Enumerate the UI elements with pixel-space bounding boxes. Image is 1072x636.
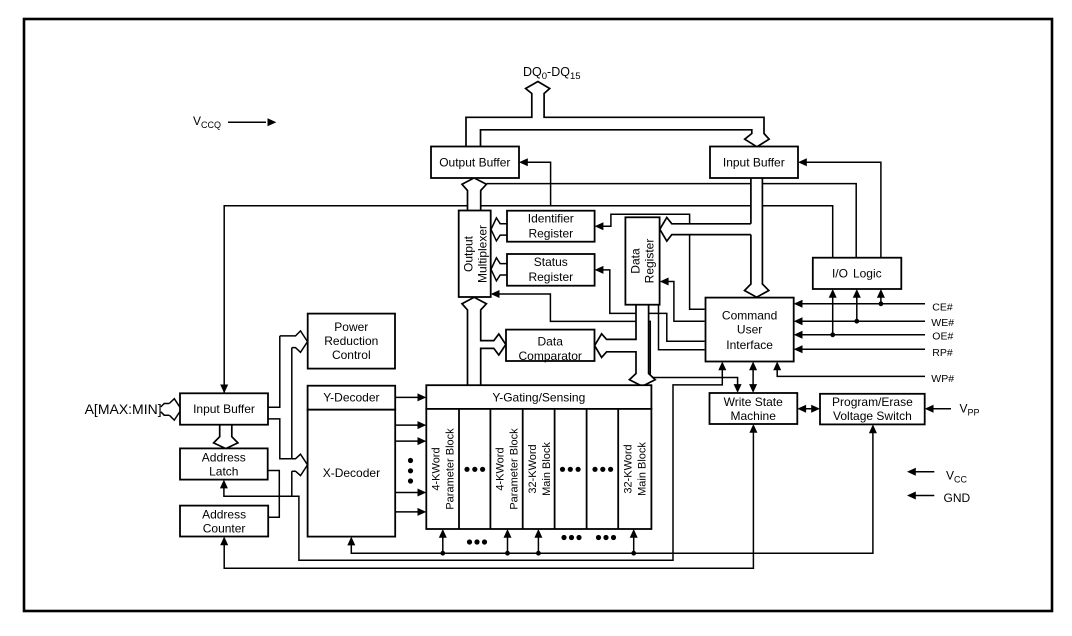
svg-text:RP#: RP#: [932, 347, 953, 359]
wire: CE#: [796, 303, 925, 305]
bus arrow: Identifier Register to Output Multiplexer: [491, 218, 508, 241]
arrowhead X-Decoder to blocks 1: [418, 421, 427, 429]
wire: CUI to Data Register: [662, 282, 705, 322]
wire: Data Register bottom corner to CUI: [659, 305, 705, 350]
svg-text:Y-Decoder: Y-Decoder: [323, 391, 379, 405]
bus: Input Buffer down to Command User Interface: [745, 177, 769, 297]
svg-text:Register: Register: [528, 227, 573, 241]
arrowhead into WSM bottom: [749, 424, 757, 433]
svg-text:Multiplexer: Multiplexer: [475, 225, 489, 283]
arrowhead VCC: [907, 468, 916, 476]
wire: block bottom feed 2: [507, 531, 509, 553]
wire: Y-Decoder to Y-Gating arrow line: [395, 396, 420, 398]
arrowhead PEVS left to WSM: [797, 405, 806, 413]
arrowhead into Input Buffer addr top: [220, 385, 228, 394]
svg-text:32-KWord: 32-KWord: [527, 444, 539, 493]
arrowhead into Identifier Register right: [595, 222, 604, 230]
box Write State Machine: [710, 393, 798, 424]
box Status Register: [507, 254, 595, 286]
wire: WP#: [777, 364, 925, 377]
arrowhead into Address Latch bottom: [220, 480, 228, 489]
bus arrow: Status Register to Output Multiplexer: [491, 258, 508, 281]
wire: CUI-WSM vertical double arrow: [752, 364, 754, 391]
wire: VCC input arrow line: [909, 471, 934, 473]
arrowhead into block7 bottom: [630, 529, 638, 538]
svg-text:4-KWord: 4-KWord: [495, 447, 507, 490]
wire: block bottom feed 4: [633, 531, 635, 553]
box Identifier Register: [507, 211, 595, 242]
svg-text:Data: Data: [538, 335, 564, 349]
wire: long bus line y=205.8 from x=224 to I/O Logic: [224, 206, 833, 393]
arrowhead into CUI bottom WP#: [773, 362, 781, 371]
wire: Address Counter / WSM net (line C): [224, 426, 753, 568]
wire: OE#: [796, 334, 925, 336]
wire: RP#: [796, 348, 925, 350]
box Power Reduction Control: [308, 314, 395, 369]
svg-text:WE#: WE#: [931, 317, 954, 329]
svg-text:Write State: Write State: [724, 395, 783, 409]
box memory blocks row: [426, 409, 651, 529]
junction dot block feed 3: [536, 551, 541, 556]
arrowhead into Output Buffer right: [519, 158, 528, 166]
arrowhead VCCQ: [268, 118, 277, 126]
arrowhead X-Decoder to blocks 2: [418, 437, 427, 445]
box X-Decoder: [308, 410, 396, 537]
arrowhead X-Decoder to blocks 3: [418, 489, 427, 497]
ellipsis below blocks 2: [561, 535, 581, 540]
arrowhead into X-Decoder bottom: [347, 537, 355, 546]
arrowhead into block3 bottom: [504, 529, 512, 538]
wire: X-Decoder / blocks / PEVS net (dots line): [351, 426, 873, 553]
box Data Comparator: [506, 330, 595, 361]
wire: VCCQ arrow line: [228, 121, 266, 123]
svg-text:I/OLogic: I/OLogic: [832, 267, 882, 281]
DQ bus: Output Buffer top, DQ0-DQ15 arrow, Input Buffer top arrow: [466, 82, 769, 148]
bus arrow: Output Multiplexer up to Output Buffer: [462, 178, 486, 212]
svg-text:Reduction: Reduction: [324, 334, 378, 348]
arrowhead into WSM top from mux line: [734, 384, 742, 393]
junction dot block feed 4: [631, 551, 636, 556]
bus arrow: into Power Reduction Control: [280, 331, 308, 352]
wire: Output Buffer right input: [521, 162, 551, 206]
svg-text:Data: Data: [628, 248, 642, 274]
svg-text:Address: Address: [202, 508, 246, 522]
junction dot block feed 2: [505, 551, 510, 556]
svg-text:Power: Power: [334, 320, 368, 334]
bus: Data Register down to Y-Gating with branch to Data Comparator: [595, 304, 656, 387]
box Data Register: [625, 217, 659, 304]
box Program/Erase Voltage Switch: [820, 394, 925, 425]
arrowhead into Data Register right: [660, 278, 669, 286]
wire: X-Decoder to block arrow 3: [395, 492, 420, 494]
wire: Address Latch / CUI net (line B): [224, 364, 722, 561]
ellipsis X-Decoder to blocks (vertical dots): [408, 458, 413, 484]
svg-text:Input Buffer: Input Buffer: [723, 156, 785, 170]
block5 ellipsis: [560, 467, 581, 472]
box Address Counter: [180, 506, 268, 537]
box Output Multiplexer: [459, 211, 491, 298]
svg-text:Interface: Interface: [726, 338, 773, 352]
wire: X-Decoder to block arrow 2: [395, 440, 420, 442]
box Y-Gating/Sensing: [426, 385, 651, 409]
bus arrow: Input Buffer addr down to Address Latch: [214, 424, 238, 449]
block divider 4: [554, 409, 556, 529]
arrowhead into Output Multiplexer right: [491, 290, 500, 298]
arrowhead into PEVS bottom: [869, 424, 877, 433]
wire: block bottom feed 3: [537, 531, 539, 553]
svg-text:Output: Output: [462, 235, 476, 272]
block divider 1: [458, 409, 460, 529]
arrowhead into I/O Logic bottom 3: [877, 289, 885, 298]
bus arrow: into X-Decoder: [292, 454, 308, 475]
arrowhead into Address Counter bottom: [220, 537, 228, 546]
arrowhead into I/O Logic bottom 1: [829, 289, 837, 298]
arrowhead into CUI bottom double: [749, 362, 757, 371]
svg-text:Parameter Block: Parameter Block: [509, 428, 521, 510]
bus: Y-Gating up to Output Multiplexer with branch to Data Comparator: [462, 297, 506, 386]
svg-text:X-Decoder: X-Decoder: [323, 466, 380, 480]
svg-text:Register: Register: [528, 270, 573, 284]
junction dot WE#: [854, 319, 859, 324]
wire: Input Buffer(addr) lower to X-Decoder shaft: [268, 419, 292, 459]
svg-text:Counter: Counter: [203, 522, 246, 536]
wire: GND input arrow line: [909, 495, 934, 497]
wire: CUI to Identifier Register: [597, 214, 705, 309]
block divider 6: [617, 409, 619, 529]
svg-text:A[MAX:MIN]: A[MAX:MIN]: [85, 401, 162, 417]
box Input Buffer addr: [180, 393, 268, 424]
svg-text:CE#: CE#: [932, 302, 953, 314]
wire: Input Buffer right input from I/O Logic: [800, 162, 881, 258]
ellipsis below blocks 1: [467, 539, 487, 544]
ellipsis below blocks 3: [596, 535, 616, 540]
block2 ellipsis: [464, 467, 485, 472]
svg-text:Status: Status: [534, 255, 568, 269]
svg-text:32-KWord: 32-KWord: [622, 444, 634, 493]
wire: Address Latch to Address Counter: [268, 471, 280, 518]
box Command User Interface: [706, 298, 794, 362]
svg-text:OE#: OE#: [932, 331, 953, 343]
box Address Latch: [180, 448, 268, 479]
box Y-Decoder: [308, 386, 396, 410]
wire: X-Decoder to block arrow 4: [395, 511, 420, 513]
arrowhead into block4 bottom: [534, 529, 542, 538]
svg-text:Register: Register: [642, 239, 656, 284]
wire: VPP input: [927, 408, 951, 410]
svg-text:Main Block: Main Block: [541, 442, 553, 496]
arrowhead into I/O Logic bottom 2: [853, 289, 861, 298]
svg-text:Command: Command: [722, 308, 777, 322]
junction dot OE#: [830, 332, 835, 337]
arrowhead into Input Buffer right: [798, 158, 807, 166]
arrowhead into CUI right RP#: [794, 345, 803, 353]
box Input Buffer top: [710, 147, 798, 179]
block divider 5: [586, 409, 588, 529]
svg-text:Y-Gating/Sensing: Y-Gating/Sensing: [492, 391, 585, 405]
arrowhead GND: [907, 492, 916, 500]
svg-text:Identifier: Identifier: [528, 212, 574, 226]
wire: WSM-PEVS horizontal double arrow: [799, 408, 818, 410]
svg-text:User: User: [737, 322, 762, 336]
arrowhead into CUI right WE#: [794, 317, 803, 325]
svg-text:Main Block: Main Block: [636, 442, 648, 496]
svg-text:WP#: WP#: [931, 373, 954, 385]
svg-text:Input Buffer: Input Buffer: [193, 402, 255, 416]
arrowhead into CUI bottom from line B: [718, 362, 726, 371]
block divider 2: [489, 409, 491, 529]
svg-text:Comparator: Comparator: [519, 349, 582, 363]
svg-text:GND: GND: [944, 491, 971, 505]
arrowhead into PEVS right VPP: [925, 405, 934, 413]
arrowhead into Status Register right: [595, 266, 604, 274]
wire: PRC shaft bottom vertical: [291, 348, 293, 459]
arrowhead WSM right to PEVS: [811, 405, 820, 413]
bus arrow: Input Buffer bus left to Data Register: [660, 218, 751, 242]
svg-text:Machine: Machine: [731, 409, 777, 423]
svg-text:Output Buffer: Output Buffer: [439, 156, 510, 170]
svg-text:Voltage Switch: Voltage Switch: [833, 409, 912, 423]
block6 ellipsis: [592, 467, 613, 472]
wire: Output Multiplexer select / WSM line: [493, 294, 738, 390]
arrowhead into CUI right OE#: [794, 331, 803, 339]
svg-text:4-KWord: 4-KWord: [431, 447, 443, 490]
svg-text:Latch: Latch: [209, 465, 238, 479]
junction dot block feed 1: [440, 551, 445, 556]
arrowhead into block1 bottom: [439, 529, 447, 538]
svg-text:Address: Address: [202, 451, 246, 465]
bus input: A[MAX:MIN] into Input Buffer: [161, 399, 182, 420]
arrowhead X-Decoder to blocks 4: [418, 508, 427, 516]
junction dot CE#: [879, 301, 884, 306]
box I/O Logic: [813, 258, 902, 289]
wire: block bottom feed 1: [442, 531, 444, 553]
block divider 3: [522, 409, 524, 529]
arrowhead Y-Decoder to YGS: [418, 393, 427, 401]
wire: Input Buffer(addr) to PRC upper: [268, 336, 280, 407]
wire: CUI to Status Register: [597, 270, 705, 341]
svg-text:Parameter Block: Parameter Block: [445, 428, 457, 510]
arrowhead into WSM top double: [749, 384, 757, 393]
wire: X-Decoder to block arrow 1: [395, 424, 420, 426]
wire: WE#: [796, 320, 925, 322]
svg-text:Control: Control: [332, 348, 371, 362]
arrowhead into CUI right CE#: [794, 300, 803, 308]
svg-text:Program/Erase: Program/Erase: [832, 395, 913, 409]
box Output Buffer: [431, 147, 519, 179]
wire: line y=183.6 from OB arrow barb to I/O Logic: [487, 184, 857, 259]
